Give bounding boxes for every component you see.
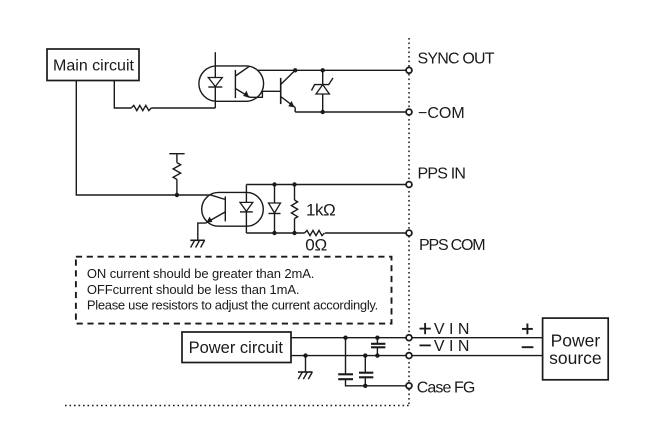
svg-text:Case FG: Case FG: [417, 380, 475, 397]
terminal SYNC OUT: [406, 67, 412, 73]
wire: +VIN terminal to power source: [412, 337, 543, 339]
svg-text:PPS IN: PPS IN: [418, 165, 466, 182]
transistor Q1: [281, 70, 296, 112]
wire: Main circuit right pin down: [114, 81, 131, 108]
wire PPS COM rail right part: [325, 232, 406, 234]
svg-text:Main circuit: Main circuit: [53, 58, 134, 75]
svg-text:1kΩ: 1kΩ: [306, 200, 335, 219]
label +VIN: [420, 321, 470, 338]
svg-text:−COM: −COM: [418, 105, 465, 122]
wire PPS IN rail: [246, 184, 406, 186]
node: FG rail junction: [363, 384, 367, 388]
resistor R2 (pull-up, vertical): [169, 154, 184, 195]
node: zener top junction: [321, 68, 325, 72]
svg-text:ON current should be greater t: ON current should be greater than 2mA.: [87, 266, 314, 281]
terminal -VIN: [406, 353, 412, 359]
node: Q1 collector junction: [293, 68, 297, 72]
svg-text:V I N: V I N: [434, 321, 470, 338]
node: pull-up resistor junction: [175, 193, 179, 197]
svg-text:OFFcurrent should be less than: OFFcurrent should be less than 1mA.: [87, 282, 300, 297]
wire: resistor to LED of PC1: [151, 107, 215, 109]
ground G3: [298, 372, 313, 379]
wire -COM: [295, 111, 406, 113]
svg-text:source: source: [549, 348, 602, 368]
svg-text:PPS COM: PPS COM: [419, 237, 485, 254]
wire SYNC OUT: [258, 69, 406, 71]
interface boundary dotted horizontal line: [65, 405, 409, 407]
resistor R1 (series, horizontal): [131, 105, 151, 110]
phototransistor of PC1: [235, 66, 250, 98]
wire: -VIN terminal to power source: [412, 355, 543, 357]
Power source block: [543, 318, 609, 380]
polarity -: [522, 346, 534, 348]
wire +VIN: [291, 337, 406, 339]
wire: PC2 emitter to ground: [198, 223, 206, 240]
svg-text:SYNC OUT: SYNC OUT: [418, 50, 495, 67]
capacitor C2 (from +VIN to FG): [338, 338, 406, 386]
svg-text:0Ω: 0Ω: [305, 235, 327, 254]
wire PPS COM rail left part: [246, 232, 304, 234]
wire: PC1 emitter step to Q1 base: [250, 91, 281, 97]
node dots on PPS rails: [272, 182, 276, 186]
ground G2: [190, 240, 205, 247]
LED D3 inside PC2: [240, 185, 253, 234]
zener diode D2: [312, 70, 334, 112]
terminal Case FG: [406, 383, 412, 389]
interface boundary dotted vertical line: [408, 38, 410, 406]
optocoupler PC1 body: [199, 66, 264, 101]
diode D4: [269, 185, 281, 234]
note box (dashed): [76, 257, 392, 324]
node dots power rails: [343, 336, 347, 340]
capacitor C1 (between +VIN and -VIN): [371, 338, 385, 356]
wire: Main circuit left pin down and across: [76, 81, 210, 195]
terminal +VIN: [406, 335, 412, 341]
polarity +: [522, 324, 533, 335]
terminal -COM: [406, 109, 412, 115]
node: ground stem junction: [303, 353, 307, 357]
svg-text:Power circuit: Power circuit: [189, 339, 284, 357]
optocoupler PC2 body: [202, 192, 264, 226]
label -VIN: [420, 338, 470, 355]
wire -VIN: [291, 355, 406, 357]
Main circuit block: [47, 49, 139, 81]
resistor R3 (1k ohm, vertical): [291, 185, 297, 234]
terminal PPS IN: [406, 182, 412, 188]
svg-text:V I N: V I N: [434, 338, 470, 355]
svg-text:Please use resistors to adjust: Please use resistors to adjust the curre…: [87, 297, 378, 312]
terminal PPS COM: [406, 230, 412, 236]
capacitor C3 (from -VIN to FG): [359, 356, 373, 386]
wire: stem to ground G3: [305, 356, 307, 372]
phototransistor of PC2: [206, 195, 226, 223]
LED D1 inside PC1: [208, 52, 222, 108]
node: zener bottom junction: [321, 110, 325, 114]
resistor R4 (0 ohm): [305, 230, 325, 235]
Power circuit block: [182, 332, 291, 363]
